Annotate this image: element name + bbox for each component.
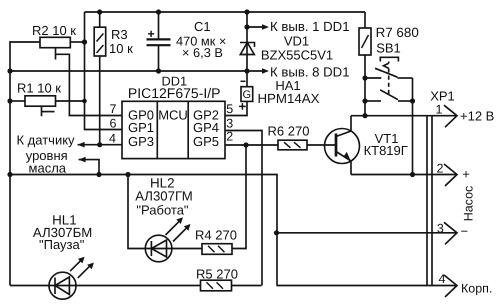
svg-text:GP5: GP5: [193, 134, 219, 149]
svg-text:4: 4: [109, 131, 116, 145]
svg-text:R7 680: R7 680: [376, 25, 419, 40]
svg-text:5: 5: [226, 102, 233, 116]
svg-text:К выв. 1 DD1: К выв. 1 DD1: [270, 19, 350, 34]
svg-text:GP4: GP4: [193, 120, 219, 135]
svg-text:G: G: [243, 89, 252, 101]
svg-text:Корп.: Корп.: [461, 282, 492, 296]
svg-text:GP3: GP3: [128, 134, 154, 149]
svg-text:BZX55C5V1: BZX55C5V1: [261, 47, 333, 62]
svg-text:× 6,3 В: × 6,3 В: [182, 45, 223, 60]
svg-text:"Работа": "Работа": [136, 202, 189, 217]
svg-text:+: +: [462, 167, 470, 182]
svg-text:К датчику: К датчику: [17, 132, 76, 147]
svg-text:R6 270: R6 270: [268, 124, 310, 139]
svg-text:PIC12F675-I/P: PIC12F675-I/P: [128, 85, 221, 101]
svg-text:SB1: SB1: [376, 41, 401, 56]
svg-text:VD1: VD1: [284, 33, 309, 48]
svg-text:2: 2: [226, 130, 233, 144]
svg-text:R1 10 к: R1 10 к: [17, 81, 61, 96]
svg-text:R5 270: R5 270: [196, 266, 238, 281]
svg-text:7: 7: [110, 102, 117, 116]
svg-text:HPM14AX: HPM14AX: [257, 91, 319, 106]
svg-text:R2 10 к: R2 10 к: [32, 23, 76, 38]
svg-text:XP1: XP1: [430, 89, 455, 104]
svg-text:R4 270: R4 270: [195, 227, 237, 242]
svg-text:R3: R3: [111, 27, 128, 42]
svg-text:2: 2: [437, 161, 444, 175]
svg-text:4: 4: [439, 272, 446, 286]
svg-text:КТ819Г: КТ819Г: [364, 143, 408, 158]
svg-text:10 к: 10 к: [109, 41, 133, 56]
svg-text:1: 1: [436, 103, 443, 117]
svg-text:Насос: Насос: [461, 186, 475, 222]
svg-text:3: 3: [437, 221, 444, 235]
svg-text:3: 3: [226, 117, 233, 131]
svg-text:−: −: [461, 224, 469, 239]
svg-text:GP1: GP1: [128, 120, 154, 135]
svg-text:"Пауза": "Пауза": [39, 237, 85, 252]
svg-text:C1: C1: [194, 19, 211, 34]
svg-text:масла: масла: [29, 160, 67, 175]
svg-text:+12 В: +12 В: [460, 109, 494, 124]
svg-text:MCU: MCU: [158, 108, 188, 123]
svg-text:6: 6: [110, 117, 117, 131]
